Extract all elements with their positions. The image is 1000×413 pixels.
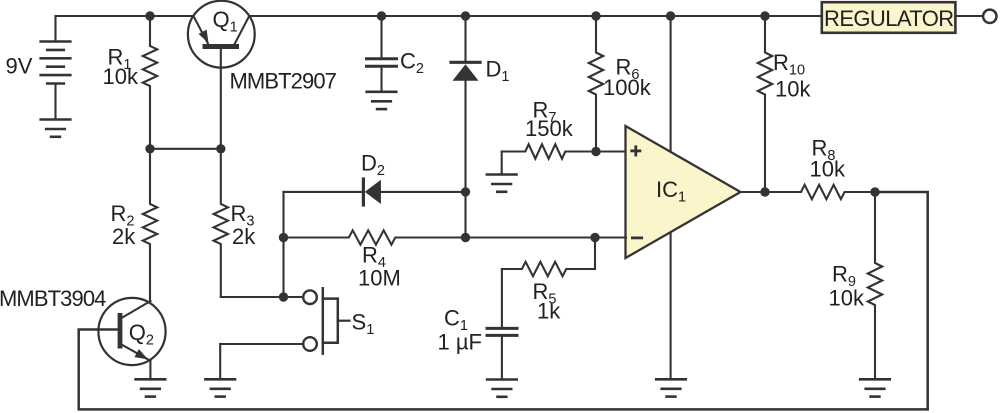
svg-text:10k: 10k bbox=[103, 64, 139, 89]
node junction dot R4 right / D1 bottom / -input line bbox=[461, 233, 470, 242]
node junction dot R1 bottom bbox=[145, 144, 154, 153]
resistor R7 bbox=[502, 144, 596, 158]
svg-text:Q1: Q1 bbox=[213, 7, 238, 36]
label REGULATOR bbox=[824, 6, 953, 31]
resistor R3 bbox=[214, 149, 228, 297]
label C2 bbox=[400, 49, 424, 78]
svg-text:2k: 2k bbox=[232, 224, 256, 249]
node junction dot D1 line at D2 bbox=[461, 187, 470, 196]
diode D2 bbox=[284, 179, 466, 205]
capacitor C1 bbox=[487, 269, 517, 380]
wire top rail left segment (battery to Q1 emitter) bbox=[56, 15, 194, 17]
resistor R8 bbox=[765, 185, 875, 199]
label R7 150k bbox=[525, 98, 574, 142]
label R1 10k bbox=[103, 44, 139, 89]
transistor Q2 (NPN) bbox=[98, 298, 165, 365]
ground (battery) bbox=[41, 120, 71, 137]
svg-text:2k: 2k bbox=[112, 224, 136, 249]
label R2 2k bbox=[111, 201, 137, 249]
terminal output (open circle) bbox=[983, 10, 996, 23]
wire regulator to output terminal bbox=[955, 15, 983, 17]
label R5 1k bbox=[533, 279, 562, 324]
svg-text:10k: 10k bbox=[775, 77, 811, 102]
label D2 bbox=[361, 150, 385, 179]
node junction dot R10 bottom / IC1 output bbox=[760, 187, 769, 196]
ground (R9) bbox=[860, 379, 890, 396]
svg-text:150k: 150k bbox=[525, 116, 574, 141]
battery 9V bbox=[41, 16, 71, 120]
wire to IC1 inverting input bbox=[466, 236, 627, 238]
wire R7 left end down to ground bbox=[501, 152, 503, 175]
svg-text:9V: 9V bbox=[6, 53, 33, 78]
ground (IC1 negative supply) bbox=[656, 379, 686, 396]
node junction dot top rail at C2 bbox=[377, 11, 386, 20]
resistor R6 bbox=[589, 16, 603, 152]
wire R5 right end up to -input line bbox=[594, 238, 596, 270]
wire feedback loop to Q2 base bbox=[79, 192, 928, 409]
svg-text:1 µF: 1 µF bbox=[438, 330, 482, 355]
wire IC1 positive supply from top rail bbox=[670, 16, 672, 152]
wire vertical branch D2 corner to S1 junction bbox=[282, 192, 284, 297]
label R3 2k bbox=[231, 201, 257, 249]
wire R7 junction to IC1 noninverting input bbox=[596, 150, 626, 152]
wire S1 bottom terminal to ground bbox=[220, 344, 303, 379]
wire R3 bottom to S1 top terminal bbox=[221, 296, 303, 298]
node junction dot D2/R4 branch at S1 wire bbox=[279, 292, 288, 301]
label R9 10k bbox=[829, 262, 865, 311]
wire IC1 output bbox=[741, 191, 802, 193]
node junction dot R8 right / R9 top / feedback bbox=[870, 187, 879, 196]
wire top rail right segment (Q1 collector to regulator) bbox=[249, 15, 822, 17]
resistor R10 bbox=[758, 16, 772, 192]
label MMBT2907 bbox=[230, 68, 337, 93]
svg-text:R10: R10 bbox=[773, 50, 805, 79]
wire node row between R1 and Q1 base bbox=[150, 148, 221, 150]
node junction dot R4 left end bbox=[279, 233, 288, 242]
node junction dot R6 bottom / R7 / IC1 +input bbox=[591, 147, 600, 156]
label IC1 + input pin bbox=[630, 145, 641, 156]
svg-text:1k: 1k bbox=[537, 299, 561, 324]
transistor Q1 (PNP) bbox=[188, 1, 255, 149]
ground (S1) bbox=[205, 379, 235, 396]
op-amp IC1 bbox=[626, 126, 741, 258]
svg-text:MMBT2907: MMBT2907 bbox=[230, 68, 337, 93]
label R8 10k bbox=[810, 136, 846, 182]
svg-text:S1: S1 bbox=[352, 309, 375, 338]
switch S1 (pushbutton) bbox=[303, 288, 349, 353]
label 9V bbox=[6, 53, 33, 78]
ground (C1) bbox=[487, 380, 517, 397]
node junction dot top rail at R1 bbox=[145, 11, 154, 20]
node junction dot top rail at IC1 supply bbox=[666, 11, 675, 20]
ground (C2) bbox=[367, 92, 397, 109]
block REGULATOR bbox=[822, 2, 956, 33]
resistor R4 bbox=[284, 230, 466, 244]
svg-text:10k: 10k bbox=[829, 285, 865, 310]
label R6 100k bbox=[603, 55, 652, 101]
wire IC1 negative supply to ground bbox=[670, 231, 672, 379]
svg-text:MMBT3904: MMBT3904 bbox=[0, 286, 106, 311]
svg-text:10k: 10k bbox=[810, 157, 846, 182]
label R4 10M bbox=[358, 242, 401, 290]
ground (R7) bbox=[487, 175, 517, 192]
svg-text:100k: 100k bbox=[603, 75, 652, 100]
label IC1 - input pin bbox=[631, 236, 643, 239]
label S1 bbox=[352, 309, 375, 338]
label Q1 bbox=[213, 7, 238, 36]
node junction dot top rail at D1 bbox=[461, 11, 470, 20]
svg-text:Q2: Q2 bbox=[129, 320, 154, 349]
node junction dot top rail at R6 bbox=[591, 11, 600, 20]
node junction dot top rail at R10 bbox=[760, 11, 769, 20]
svg-text:10M: 10M bbox=[358, 266, 401, 291]
label R10 10k bbox=[773, 50, 811, 101]
resistor R1 bbox=[143, 16, 157, 149]
resistor R5 bbox=[502, 262, 595, 276]
wire Q2 emitter to ground bbox=[149, 361, 151, 380]
label C1 1uF bbox=[438, 306, 482, 355]
ground (Q2 emitter) bbox=[136, 379, 166, 396]
label D1 bbox=[486, 56, 510, 85]
label IC1 bbox=[656, 177, 686, 206]
node junction dot R5 tap on -input line bbox=[590, 233, 599, 242]
node junction dot Q1 base / R3 top bbox=[216, 144, 225, 153]
svg-text:D1: D1 bbox=[486, 56, 510, 85]
resistor R2 bbox=[143, 149, 157, 301]
svg-text:C2: C2 bbox=[400, 49, 424, 78]
svg-text:REGULATOR: REGULATOR bbox=[824, 6, 953, 31]
svg-text:D2: D2 bbox=[361, 150, 385, 179]
label MMBT3904 bbox=[0, 286, 106, 311]
capacitor C2 bbox=[367, 16, 397, 92]
diode D1 bbox=[451, 16, 480, 238]
label Q2 bbox=[129, 320, 154, 349]
resistor R9 bbox=[868, 192, 882, 379]
